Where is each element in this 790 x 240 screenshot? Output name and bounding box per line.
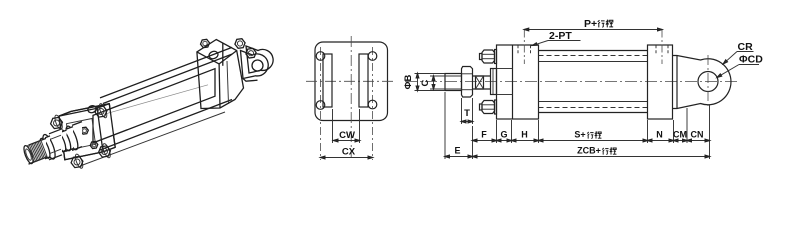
svg-text:ΦB: ΦB (403, 75, 414, 90)
isometric view: front head plate (59, 104, 115, 160)
isometric view: head tie-rod nuts (51, 103, 112, 169)
isometric view: rod hex nut (40, 129, 62, 161)
svg-text:CM: CM (673, 130, 687, 140)
piston rod thread (445, 74, 462, 91)
clevis bracket (673, 56, 731, 109)
svg-text:P+: P+ (584, 18, 597, 30)
isometric view: lower-left tie rod line (80, 112, 225, 166)
isometric view: rod gland boss (72, 122, 82, 151)
flange centerline vertical (350, 36, 352, 158)
dimension phi-B (403, 74, 445, 91)
isometric view: rod collar (66, 127, 74, 152)
clevis hole vertical centerline (707, 55, 709, 108)
dimension CX (321, 147, 373, 159)
isometric view: rear cap tie-rod nuts (201, 39, 257, 58)
svg-text:G: G (500, 130, 507, 140)
rod gland (491, 69, 497, 95)
rod shaft (473, 76, 491, 89)
rod wrench flats (476, 76, 484, 89)
right slot centerline (372, 47, 374, 160)
head port hidden lines (518, 45, 531, 55)
isometric view: gland plate (67, 119, 96, 150)
isometric view: cylinder tube (93, 69, 215, 143)
label 2-PT with leader (533, 30, 581, 46)
left slot centerline (320, 47, 322, 160)
flange centerline horizontal (306, 80, 396, 82)
head cover (497, 45, 539, 119)
flange plate outline (315, 42, 388, 121)
isometric view: bottom tie rod (100, 100, 232, 151)
svg-text:F: F (481, 130, 487, 140)
clevis pin hole (698, 72, 718, 92)
svg-text:CW: CW (339, 130, 355, 141)
dimension row E and ZCB+stroke (445, 146, 710, 158)
svg-text:CX: CX (342, 147, 356, 158)
top tie rod (539, 56, 648, 62)
isometric view: top tie rod (100, 47, 232, 103)
isometric view: rear cap plate (197, 40, 244, 109)
svg-text:2-PT: 2-PT (549, 30, 572, 42)
dimension T (462, 98, 473, 124)
svg-text:ΦCD: ΦCD (739, 54, 763, 66)
svg-text:H: H (521, 130, 528, 140)
svg-text:CN: CN (691, 130, 704, 140)
extension lines (445, 92, 710, 159)
svg-text:N: N (656, 130, 663, 140)
isometric view: clevis far ear (246, 46, 273, 73)
right slot (359, 52, 377, 109)
head port centerline (523, 30, 525, 65)
dimension row F G H S N CM CN (473, 130, 710, 142)
isometric view: rod washer (61, 130, 67, 152)
isometric view: clevis near ear (241, 51, 269, 82)
isometric view: tube reflection line (104, 85, 208, 115)
dimension C (420, 76, 462, 89)
rear cap (648, 45, 673, 119)
svg-text:T: T (464, 108, 470, 119)
rod lock nut (462, 67, 473, 98)
side view centerline (405, 81, 737, 83)
svg-text:S+: S+ (574, 130, 585, 140)
cap port hidden lines (656, 45, 668, 55)
isometric view: threaded rod end (22, 138, 47, 164)
svg-text:ZCB+: ZCB+ (577, 146, 601, 156)
svg-text:C: C (420, 79, 431, 86)
label phi-CD with leader (717, 54, 763, 78)
head tie-rod nut bottom (480, 100, 497, 114)
label CR with leader (723, 41, 753, 64)
dimension P+stroke (524, 28, 662, 31)
isometric view: rear port hole on cap (208, 50, 219, 60)
cap port centerline (661, 30, 663, 65)
cylinder tube (539, 51, 648, 113)
left slot (316, 52, 332, 110)
isometric view: rod washer 2 (45, 136, 50, 159)
svg-text:E: E (454, 146, 460, 156)
bottom tie rod (539, 102, 648, 108)
isometric view: clevis pin hole (252, 60, 263, 71)
isometric view: front port hole on head (87, 105, 97, 114)
head tie-rod nut top (480, 50, 497, 64)
dimension CW (333, 109, 360, 143)
isometric view: gland bolts (81, 127, 98, 148)
